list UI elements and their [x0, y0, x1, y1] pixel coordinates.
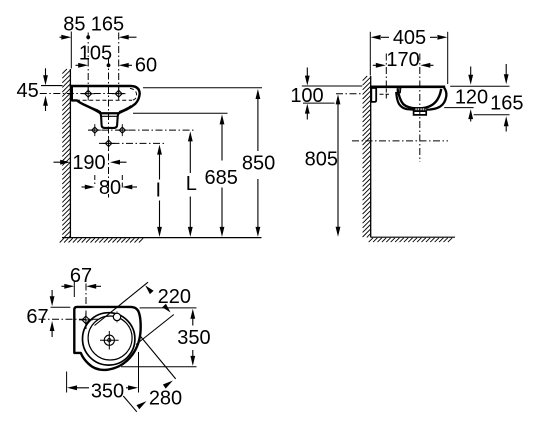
- drain centre mark front view: [105, 140, 111, 146]
- plan dim 67 top: [62, 265, 102, 289]
- svg-text:685: 685: [205, 167, 238, 189]
- washbasin front drain box: [101, 113, 119, 128]
- plan dim 350 bottom: [67, 381, 138, 403]
- side view hole centreline in tab: [385, 89, 387, 99]
- oblique dim 280: dimension line lower: [123, 396, 137, 412]
- side view: wall face line: [370, 76, 372, 237]
- extension rim top left side: [302, 85, 362, 87]
- washbasin front inner apron line right: [119, 106, 131, 112]
- svg-text:67: 67: [26, 306, 48, 328]
- dim 165: [86, 14, 136, 40]
- vertical centreline lower hole1 terminator: [94, 175, 96, 184]
- svg-text:60: 60: [135, 54, 157, 76]
- plan centreline vertical through fixing hole: [85, 284, 87, 330]
- side profile: sectioned rim: [397, 88, 401, 93]
- side profile: wall tab: [371, 88, 376, 102]
- side profile: rim top: [371, 86, 445, 89]
- plan dim 67 left extension: [51, 306, 71, 308]
- plan view: bowl inner rim: [88, 316, 132, 360]
- side profile: right end outer shell: [426, 87, 446, 109]
- dim 805: [305, 94, 341, 236]
- plan dim 350 right: [177, 309, 210, 366]
- oblique dim 220: arrow lower: [162, 304, 170, 313]
- washbasin front hidden rim right arc: [130, 88, 137, 100]
- extension rim top right side: [450, 85, 509, 87]
- oblique dim 220: arrow upper: [145, 285, 153, 294]
- dim 170: [373, 49, 434, 71]
- dim 685 vertical: [205, 114, 238, 236]
- dim 85 165 extension line at wall: [70, 32, 72, 69]
- centreline through lower fixing holes: [88, 129, 196, 131]
- svg-text:80: 80: [99, 177, 121, 199]
- plan view: drain: [100, 331, 119, 350]
- drain axis centreline side view: [419, 54, 421, 163]
- dim I vertical: [156, 145, 162, 237]
- dim 45: [16, 68, 62, 111]
- drain horizontal centreline side view: [352, 140, 448, 142]
- fixing hole upper-right: [115, 90, 122, 97]
- dim 405 extension left: [369, 32, 371, 76]
- svg-text:120: 120: [455, 87, 488, 109]
- dim 405: [371, 27, 448, 49]
- front view: floor hatching: [60, 238, 144, 242]
- washbasin front outline: [71, 86, 140, 113]
- front view: floor line: [62, 237, 262, 239]
- oblique dim 220: extension line upper: [95, 282, 149, 325]
- washbasin front drain flange line: [101, 115, 118, 117]
- centreline through upper fixing holes: [40, 93, 125, 95]
- svg-text:805: 805: [305, 149, 338, 171]
- vertical centreline lower hole2 terminator: [121, 175, 123, 190]
- dim 105: [76, 43, 113, 68]
- fixing hole centreline side view left: [336, 93, 361, 95]
- dim L vertical: [186, 131, 197, 237]
- fixing hole lower-right: [119, 127, 125, 133]
- oblique dim 280: dimension line upper: [140, 336, 176, 379]
- extension underside right side: [444, 107, 473, 109]
- svg-text:I: I: [156, 180, 162, 202]
- plan dim 350 right: bottom extension: [121, 366, 197, 368]
- svg-text:405: 405: [393, 27, 426, 49]
- side profile: drain flange: [415, 108, 425, 111]
- front view: wall hatch: [62, 69, 70, 237]
- side view: floor line: [371, 236, 455, 238]
- fixing hole lower-left: [92, 127, 98, 133]
- svg-text:190: 190: [72, 152, 105, 174]
- extension drain bottom right side: [474, 114, 510, 116]
- side profile: drain body: [414, 111, 427, 115]
- oblique dim 220: extension line lower: [136, 315, 174, 345]
- svg-text:170: 170: [386, 49, 419, 71]
- svg-text:100: 100: [290, 85, 323, 107]
- plan dim 350 bottom extension right: [138, 352, 140, 393]
- svg-text:350: 350: [91, 381, 124, 403]
- extension line basin bottom to 685: [133, 112, 228, 114]
- oblique dim 280: arrow upper: [163, 381, 173, 389]
- plan dim 67 top extension: [73, 282, 75, 298]
- svg-text:105: 105: [79, 43, 112, 65]
- dim 850 vertical: [242, 89, 275, 237]
- dim 80: [82, 177, 138, 199]
- svg-text:165: 165: [490, 92, 523, 114]
- extension tab bottom left side: [303, 102, 335, 104]
- svg-text:165: 165: [91, 14, 124, 36]
- dim 85: [60, 14, 86, 40]
- svg-text:350: 350: [177, 327, 210, 349]
- dim 165 side: [490, 64, 523, 132]
- oblique dim 280: arrow lower: [137, 401, 147, 409]
- svg-text:85: 85: [63, 14, 85, 36]
- dim 120: [455, 67, 488, 122]
- plan view: basin outline: [74, 307, 140, 370]
- dim 405 extension right: [447, 32, 449, 84]
- dim 190: [54, 152, 127, 174]
- washbasin front inner apron line left: [80, 103, 101, 112]
- vertical centreline drain front: [108, 59, 110, 198]
- svg-text:280: 280: [149, 387, 182, 409]
- fixing hole upper-left: [85, 90, 92, 97]
- plan dim 350 right: top extension and 220 leader: [140, 307, 197, 309]
- extension line basin top to 850: [143, 87, 262, 89]
- vertical centreline hole2: [118, 33, 120, 101]
- drain horizontal centreline front: [99, 142, 166, 144]
- side profile: outer underside left: [396, 92, 414, 110]
- svg-text:220: 220: [158, 286, 191, 308]
- plan view: fixing hole: [82, 316, 90, 324]
- front view: wall face line: [69, 69, 71, 237]
- svg-text:L: L: [186, 173, 197, 195]
- dim 60: [119, 54, 157, 76]
- svg-text:45: 45: [16, 80, 38, 102]
- centreline x 386 side view: [385, 54, 387, 87]
- plan view: bowl outer rim: [83, 313, 135, 365]
- side profile: bowl inner curve: [398, 89, 441, 109]
- side view: floor hatching: [369, 238, 453, 242]
- plan dim 67 left: [26, 290, 54, 337]
- svg-text:850: 850: [242, 152, 275, 174]
- side view: wall hatch: [363, 76, 371, 237]
- svg-text:67: 67: [70, 265, 92, 287]
- vertical centreline hole1: [87, 33, 89, 101]
- dim 100: [290, 68, 323, 120]
- plan dim 350 bottom extension left: [66, 372, 68, 393]
- plan view: tap hole: [113, 313, 120, 320]
- plan centreline horizontal through fixing hole: [39, 318, 99, 320]
- washbasin front hidden rim dashed line: [76, 99, 132, 101]
